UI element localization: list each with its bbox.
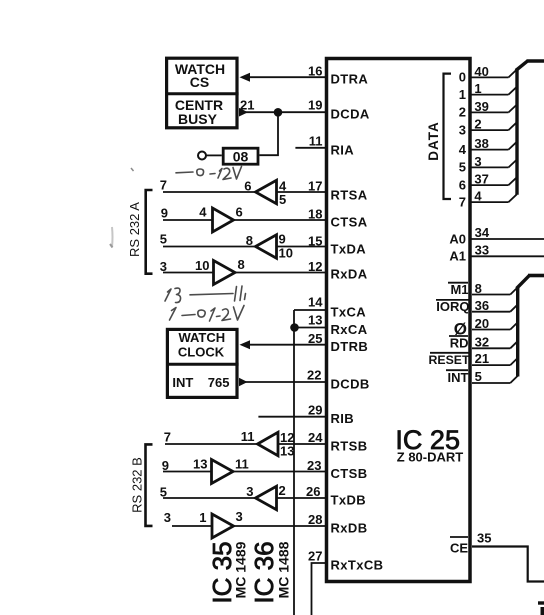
svg-text:35: 35	[477, 531, 491, 546]
data bus vertical	[515, 69, 518, 195]
wire INT pin 5	[472, 382, 510, 384]
svg-text:3: 3	[160, 259, 167, 274]
svg-text:8: 8	[475, 281, 482, 296]
wire row A4 RxDA	[163, 272, 327, 274]
svg-text:21: 21	[240, 98, 254, 113]
wire clock phi pin 20	[472, 329, 510, 331]
svg-text:10: 10	[195, 258, 209, 273]
svg-text:BUSY: BUSY	[178, 111, 218, 127]
svg-text:3: 3	[246, 484, 253, 499]
wire junction down to 08 box	[260, 112, 279, 155]
svg-text:5: 5	[475, 369, 482, 384]
wire pin 27 RxTxCB	[312, 563, 328, 615]
wire data D2 pin 39	[470, 111, 509, 113]
svg-text:24: 24	[308, 430, 323, 445]
svg-text:CE: CE	[450, 541, 468, 556]
svg-text:RTSB: RTSB	[331, 439, 368, 454]
wire RxCA pin 13	[294, 327, 327, 329]
svg-text:RTSA: RTSA	[331, 188, 368, 203]
wire pin 29 RIB	[258, 416, 327, 418]
svg-text:18: 18	[308, 207, 322, 222]
svg-text:RxDB: RxDB	[331, 521, 368, 536]
svg-text:IC 36: IC 36	[249, 541, 279, 603]
wire data D7 pin 4	[470, 201, 509, 203]
svg-text:13: 13	[308, 313, 322, 328]
svg-text:Z 80-DART: Z 80-DART	[397, 449, 464, 464]
svg-text:5: 5	[160, 232, 167, 247]
handwritten 1 -01.2V annotation	[170, 306, 245, 322]
svg-text:5: 5	[459, 160, 466, 175]
svg-text:RIB: RIB	[331, 411, 355, 426]
control pins right side	[429, 281, 518, 385]
svg-text:40: 40	[474, 64, 488, 79]
gate A4 right-pointing	[214, 261, 236, 285]
wire row B2 CTSB	[163, 471, 327, 473]
wire pin 16 DTRA to WATCH CS with arrow	[240, 73, 328, 82]
wire left of 08 box	[206, 154, 222, 156]
svg-text:8: 8	[246, 233, 253, 248]
gate A3 left-pointing	[256, 235, 277, 258]
wire vertical clock line to bottom	[293, 310, 295, 615]
data bus horizontal top	[527, 59, 544, 63]
svg-text:14: 14	[308, 295, 323, 310]
wire row A1 RTSA	[163, 191, 327, 193]
gate B1 left-pointing	[258, 432, 279, 455]
svg-text:3: 3	[236, 509, 243, 524]
wire data D3 pin 2	[470, 129, 509, 131]
svg-text:2: 2	[279, 483, 286, 498]
svg-text:DTRA: DTRA	[331, 72, 369, 87]
wire row B3 TxDB	[163, 497, 327, 499]
svg-text:4: 4	[474, 189, 482, 204]
wire A0 pin 34	[470, 238, 544, 240]
open terminal circle	[198, 152, 206, 160]
control bus horizontal top	[528, 274, 544, 278]
svg-text:1: 1	[474, 81, 481, 96]
svg-text:INT: INT	[172, 375, 193, 390]
gate A1 left-pointing	[256, 180, 277, 203]
svg-text:CS: CS	[190, 74, 209, 90]
junction dot TxCA/RxCA	[290, 323, 299, 332]
svg-text:MC 1488: MC 1488	[276, 541, 292, 598]
svg-text:11: 11	[309, 134, 323, 149]
svg-text:33: 33	[475, 243, 489, 258]
svg-text:9: 9	[161, 206, 168, 221]
svg-text:MC 1489: MC 1489	[233, 541, 249, 598]
bracket DATA	[444, 74, 452, 199]
svg-text:15: 15	[308, 234, 322, 249]
svg-text:3: 3	[474, 154, 481, 169]
svg-text:4: 4	[199, 205, 207, 220]
svg-text:2: 2	[459, 105, 466, 120]
svg-text:38: 38	[474, 136, 488, 151]
svg-text:DCDB: DCDB	[331, 377, 370, 392]
svg-text:5: 5	[160, 485, 167, 500]
wire pin 19 DCDA from CENTR BUSY	[239, 108, 327, 117]
svg-text:6: 6	[236, 205, 243, 220]
svg-text:INT: INT	[448, 370, 469, 385]
svg-text:13: 13	[193, 457, 207, 472]
svg-text:32: 32	[475, 334, 489, 349]
svg-text:37: 37	[474, 172, 488, 187]
wire data D6 pin 37	[470, 184, 509, 186]
svg-text:RxTxCB: RxTxCB	[331, 558, 384, 573]
svg-text:1: 1	[199, 510, 206, 525]
gate A2 right-pointing	[213, 208, 234, 232]
svg-text:DTRB: DTRB	[331, 339, 369, 354]
svg-text:2: 2	[474, 117, 481, 132]
data bus diagonal top	[516, 61, 528, 71]
wire pin 25 DTRB to WATCH CLOCK with arrow	[240, 340, 328, 349]
junction dot	[274, 108, 283, 117]
box WATCH CLOCK / INT 765	[166, 329, 239, 397]
bracket RS 232 A	[146, 190, 153, 274]
gate B2 right-pointing	[212, 460, 234, 484]
wire M1 pin 8	[472, 294, 510, 296]
svg-text:21: 21	[475, 351, 489, 366]
wire data D4 pin 38	[470, 149, 509, 151]
partial glyph bottom right	[538, 601, 544, 615]
wire data D5 pin 3	[470, 166, 509, 168]
svg-text:3: 3	[459, 122, 466, 137]
svg-text:DATA: DATA	[426, 121, 441, 161]
bracket RS 232 B	[146, 444, 153, 526]
svg-text:39: 39	[474, 99, 488, 114]
wire row A2 CTSA	[163, 219, 327, 221]
wire data D0 pin 40	[470, 76, 509, 78]
wire RESET pin 21	[472, 364, 510, 366]
svg-text:23: 23	[307, 458, 321, 473]
wire pin 11 RIA	[295, 147, 327, 149]
svg-text:36: 36	[475, 298, 489, 313]
svg-text:11: 11	[235, 457, 249, 472]
svg-text:6: 6	[244, 179, 251, 194]
svg-text:25: 25	[308, 331, 322, 346]
handwritten 13 - 11 annotation	[165, 286, 246, 303]
svg-text:CLOCK: CLOCK	[178, 345, 225, 360]
wire row A3 TxDA	[163, 246, 327, 248]
svg-text:765: 765	[208, 375, 230, 390]
box WATCH CS / CENTR BUSY	[165, 58, 239, 128]
svg-text:9: 9	[162, 458, 169, 473]
svg-text:13: 13	[280, 444, 294, 459]
svg-text:22: 22	[307, 368, 321, 383]
svg-text:34: 34	[475, 225, 490, 240]
svg-text:26: 26	[306, 484, 320, 499]
left pin labels inside IC	[331, 72, 384, 573]
svg-text:11: 11	[241, 429, 255, 444]
resistor box 08	[223, 148, 258, 164]
gate B4 right-pointing	[212, 514, 234, 538]
svg-text:27: 27	[308, 549, 322, 564]
svg-text:CTSA: CTSA	[331, 215, 368, 230]
svg-text:5: 5	[279, 192, 286, 207]
svg-text:08: 08	[233, 149, 249, 165]
svg-text:TxDB: TxDB	[331, 493, 367, 508]
wire row B1 RTSB	[165, 443, 327, 445]
svg-text:17: 17	[308, 179, 322, 194]
svg-text:RESET: RESET	[429, 353, 470, 367]
wire data D1 pin 1	[470, 94, 509, 96]
svg-text:28: 28	[308, 512, 322, 527]
svg-text:3: 3	[164, 510, 171, 525]
svg-text:7: 7	[164, 430, 171, 445]
svg-text:10: 10	[279, 246, 293, 261]
IC U25 Z80-DART body	[327, 59, 471, 582]
wire A1 pin 33	[470, 255, 544, 257]
svg-text:TxDA: TxDA	[331, 242, 367, 257]
svg-text:29: 29	[308, 403, 322, 418]
svg-text:CTSB: CTSB	[331, 466, 368, 481]
svg-text:RS 232 A: RS 232 A	[127, 202, 142, 257]
wire pin 22 DCDB from INT 765	[239, 378, 327, 387]
svg-text:IORQ: IORQ	[436, 299, 469, 314]
svg-text:4: 4	[459, 142, 467, 157]
svg-text:20: 20	[475, 316, 489, 331]
svg-text:M1: M1	[450, 282, 468, 297]
svg-text:16: 16	[308, 63, 322, 78]
svg-text:9: 9	[279, 232, 286, 247]
svg-text:1: 1	[459, 87, 466, 102]
svg-text:6: 6	[459, 177, 466, 192]
svg-text:8: 8	[238, 257, 245, 272]
svg-text:RIA: RIA	[331, 142, 355, 157]
handwritten -12V annotation	[176, 167, 242, 180]
svg-text:RD: RD	[450, 335, 469, 350]
svg-text:19: 19	[308, 98, 322, 113]
svg-text:0: 0	[459, 70, 466, 85]
wire CE pin 35	[472, 547, 544, 582]
gate B3 left-pointing	[256, 486, 277, 509]
data bus pins right side	[459, 64, 517, 210]
wire RD pin 32	[472, 347, 510, 349]
svg-text:7: 7	[459, 194, 466, 209]
svg-text:RxDA: RxDA	[331, 267, 368, 282]
svg-text:RxCA: RxCA	[331, 322, 368, 337]
svg-text:TxCA: TxCA	[331, 305, 367, 320]
wire row B4 RxDB	[172, 525, 327, 527]
control bus diagonal top	[517, 275, 530, 288]
svg-text:WATCH: WATCH	[178, 330, 225, 345]
svg-text:DCDA: DCDA	[331, 107, 370, 122]
svg-text:7: 7	[160, 178, 167, 193]
wire IORQ pin 36	[472, 311, 510, 313]
faint pencil dash left margin	[131, 168, 134, 171]
svg-text:12: 12	[308, 259, 322, 274]
faint pencil smudge left margin	[111, 227, 114, 247]
control bus vertical	[516, 287, 519, 377]
svg-text:RS 232 B: RS 232 B	[130, 457, 145, 513]
svg-text:A1: A1	[449, 249, 466, 264]
wire TxCA pin 14	[294, 309, 327, 311]
svg-text:A0: A0	[449, 232, 466, 247]
